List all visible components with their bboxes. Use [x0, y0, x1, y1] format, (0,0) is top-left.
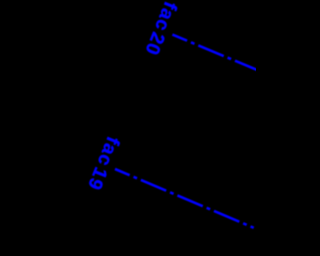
svg-text:fac 19: fac 19: [83, 133, 123, 193]
svg-text:fac 20: fac 20: [140, 0, 180, 58]
axis line fac 20: [172, 35, 262, 72]
axis line fac 19: [115, 169, 254, 228]
